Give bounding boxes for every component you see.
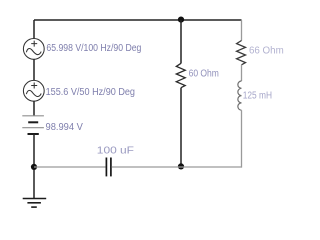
wire middle vertical upper: [180, 20, 182, 63]
resistor 60 Ohm: [176, 63, 185, 87]
svg-text:125 mH: 125 mH: [243, 91, 272, 102]
svg-text:100 uF: 100 uF: [97, 145, 134, 156]
svg-text:98.994 V: 98.994 V: [46, 122, 84, 133]
wire middle vertical lower: [180, 88, 182, 167]
inductor 125 mH: [238, 81, 242, 110]
wire source2 to battery: [33, 101, 35, 116]
battery V3: [22, 116, 44, 134]
wire bottom rail right: [112, 166, 242, 168]
label 60 Ohm: [189, 68, 219, 79]
wire right vertical top: [241, 20, 243, 41]
label 155.6 V/50 Hz/90 Deg: [46, 87, 135, 98]
svg-text:155.6 V/50 Hz/90 Deg: 155.6 V/50 Hz/90 Deg: [46, 87, 135, 98]
node top junction: [178, 17, 184, 23]
svg-text:60 Ohm: 60 Ohm: [189, 68, 219, 79]
wire left vertical top: [33, 20, 35, 39]
label 98.994 V: [46, 122, 84, 133]
node bottom-left junction: [31, 164, 37, 170]
capacitor 100 uF: [106, 158, 111, 177]
resistor 66 Ohm: [237, 41, 246, 65]
wire between sources: [33, 59, 35, 80]
svg-text:66 Ohm: 66 Ohm: [249, 46, 284, 57]
wire top rail: [34, 19, 242, 21]
wire right vertical bottom: [240, 110, 243, 167]
wire right between resistor and inductor: [241, 65, 243, 81]
AC source V1: [23, 39, 44, 60]
wire bottom rail left: [34, 166, 106, 168]
AC source V2: [23, 80, 44, 101]
wire battery to ground: [33, 134, 35, 198]
label 100 uF: [97, 145, 134, 156]
label 65.998 V/100 Hz/90 Deg: [46, 43, 141, 54]
node bottom-middle junction: [178, 163, 184, 169]
ground: [23, 199, 47, 208]
svg-text:65.998 V/100 Hz/90 Deg: 65.998 V/100 Hz/90 Deg: [46, 43, 141, 54]
label 125 mH: [243, 91, 272, 102]
label 66 Ohm: [249, 46, 284, 57]
